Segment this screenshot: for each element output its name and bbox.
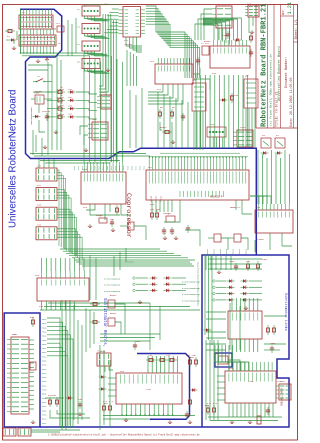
wires right stepper feed [206,255,231,270]
wire comb IC9 bottom [122,404,173,415]
wire comb between JP boxes [20,29,22,35]
wire trunk left bottom [40,309,200,311]
resistor R31 [256,261,259,271]
wires mega bottom pins [152,200,172,212]
wire bundle left stepper top [100,333,160,335]
wire comb below JP2 [20,46,22,53]
svg-text:10k: 10k [150,208,155,211]
wires mid verticals [129,90,131,148]
svg-text:JP1: JP1 [56,22,61,25]
wires IC5 up [42,258,84,271]
svg-text:16MHz: 16MHz [163,212,170,215]
resistor R60 [206,405,209,415]
led LED3 [68,107,76,110]
resistor R11 [55,99,65,102]
resistor R6 [170,109,173,119]
wires IC1 bottom [126,37,142,52]
oscillator Q3 [218,356,228,364]
svg-text:C:\EAGLE\projekte\roboternetz\: C:\EAGLE\projekte\roboternetz\rn-brall.s… [48,434,200,437]
svg-text:Document Number:: Document Number: [284,56,288,88]
ic IC9 L297 left [116,373,182,404]
resistor R51 [90,320,100,323]
junction row below JP2 [20,52,55,54]
wire t3 link [115,304,125,334]
wire trunk C [61,300,63,430]
wire band C [40,160,120,162]
wires right mid [254,240,256,252]
svg-text:IC3: IC3 [83,168,88,171]
wire trunk G [229,303,231,350]
gnd sym G [171,140,175,143]
wires SV6 top stubs [39,159,54,168]
wire pack above coprocessor [84,53,123,162]
wire rows above opto [208,259,262,269]
resistor R62 [266,325,269,335]
diode D3 [220,98,228,101]
wire mega bottom link [164,200,180,222]
svg-text:MA2L: MA2L [238,248,241,254]
wire pack mid-right vertical [185,32,200,78]
crystal Q2 [99,218,107,223]
wire pack top-center b [111,20,116,162]
svg-text:IC10: IC10 [228,367,234,370]
svg-text:0.5: 0.5 [213,402,218,405]
wire band thread [149,156,248,158]
wire rail top headers [85,5,121,6]
svg-text:Date: 28.12.2004 11:05:06: Date: 28.12.2004 11:05:06 [289,78,293,127]
connector LCD SV10 [7,337,29,414]
terminal rows left [133,276,186,292]
svg-text:78L05: 78L05 [35,90,42,93]
gnd sym F [31,420,35,423]
cap C18 [185,411,189,419]
wire trunk F [149,303,151,350]
mega32 mid labels [179,191,181,197]
resistor R10 [55,90,65,93]
ac box AC2 [275,138,285,148]
wire trunk C2 [77,320,79,424]
svg-text:PC1: PC1 [110,165,113,170]
svg-text:SV7: SV7 [37,184,42,187]
wire band B [34,155,150,157]
svg-text:MEGA32-P: MEGA32-P [230,206,241,209]
resistor R12 [55,107,65,110]
ground sym 4 [248,420,252,423]
wire t3 vert pack [85,308,87,352]
gnd sym D [43,145,47,148]
connector X5 [82,59,110,74]
ground sym 10 [138,300,142,303]
svg-text:MA1L: MA1L [42,401,48,404]
svg-text:IC9: IC9 [120,370,125,373]
cap C17 [266,407,270,415]
ground sym 13 [54,130,58,133]
svg-text:LD3: LD3 [68,104,73,107]
wires ISP fan [195,9,212,40]
wire inner loop a [33,91,52,93]
svg-text:IC5: IC5 [35,274,40,277]
ic IC3 coprocessor [81,162,126,204]
cap C10 [181,113,185,121]
wire rows above IC10 [206,332,226,350]
wire row IC9 bottom b [103,418,150,420]
resistor R15 [115,205,118,215]
svg-text:MA1L: MA1L [42,318,48,321]
wires LCD right [29,340,34,409]
svg-text:MA3L: MA3L [42,360,48,363]
svg-text:L297: L297 [146,388,152,391]
wires IC4-IC6 link [193,68,200,74]
bus box left stepper [137,354,190,420]
led LED2 [68,99,76,102]
connector SV8 [36,207,57,220]
wire stub left [6,39,9,41]
resistor R70 [48,397,51,407]
wires above IC8 [250,196,271,204]
cap C13 [249,49,253,57]
resistor row above IC9 a [146,358,156,361]
svg-text:MA1L: MA1L [42,418,48,421]
bus box LCD [4,313,40,427]
svg-text:MA1L: MA1L [42,351,48,354]
wire pack R1 left [205,255,212,345]
crystal Q1 [166,216,175,222]
svg-text:BC547: BC547 [160,126,167,129]
wire inner loop c [51,65,53,150]
title block outline [256,5,298,129]
wires IC1 right elbow [146,6,200,47]
svg-text:SV13: SV13 [240,126,246,129]
ic IC10 L298 right [225,362,276,403]
wire bundle from comb [21,52,96,54]
svg-text:1.21: 1.21 [287,2,293,14]
wire comb IC9 top [148,356,177,373]
connector SV13 [233,130,253,147]
svg-text:MA3L: MA3L [219,248,222,254]
connector SV2 ISP [212,6,232,28]
svg-text:PA4: PA4 [89,165,92,170]
svg-text:5-GLK7B9OABL0: 5-GLK7B9OABL0 [104,284,121,287]
ground sym 6 [174,236,178,239]
resistor R8 [230,93,233,103]
junction row IC9 bottom [121,414,173,415]
svg-text:MA1L: MA1L [42,335,48,338]
wires SV3 down [210,137,223,148]
svg-text:MEGA32-P: MEGA32-P [210,196,223,199]
svg-text:L298: L298 [248,380,254,383]
svg-text:10k: 10k [52,394,57,397]
connector SV6 [36,168,57,181]
svg-text:PC1: PC1 [77,165,80,170]
svg-text:PA6: PA6 [130,165,133,170]
ground sym 2 [188,420,192,423]
wires IC1 left fan [104,9,118,33]
cap C15 [133,342,137,350]
svg-text:SV3: SV3 [210,123,215,126]
wire led row 1 [47,91,55,93]
ground sym 8 [217,270,221,273]
cap C8 [110,219,114,227]
wire copro links [86,204,95,210]
ic IC2 mega32 [146,157,249,200]
wire r5 link [160,122,162,130]
svg-text:LCD1: LCD1 [12,333,18,336]
wire t2 [120,225,128,227]
ic IC5 uln2803 [37,271,89,301]
ground sym 3 [230,420,234,423]
svg-text:4MHz: 4MHz [96,214,102,217]
wires under K2 [246,108,255,148]
svg-text:Sheet: 1/1: Sheet: 1/1 [294,19,299,39]
svg-text:(c) Frank Brall, OO@u www.rob: (c) Frank Brall, OO@u www.roboternetz.de [269,54,273,126]
connector SV12 [276,384,291,400]
diode D1 [9,38,17,41]
svg-text:100n: 100n [135,340,141,343]
gnd sym E [88,224,92,227]
resistor R5 [158,109,161,119]
svg-text:L293D: L293D [257,238,264,241]
resistor R54 [188,357,191,367]
connector SV4 [245,5,259,17]
wire trunk H [99,345,101,430]
wire comb IC10 bottom [229,403,273,417]
svg-text:JP2: JP2 [58,42,63,45]
diode D9 [261,151,269,154]
wire pack under IC4 [158,92,188,148]
svg-text:MA1L: MA1L [42,368,48,371]
diode D5 [99,375,107,378]
led LED4 [68,115,76,118]
svg-text:PC5: PC5 [126,165,129,170]
svg-text:BC547: BC547 [110,294,117,297]
svg-text:100n: 100n [262,258,268,261]
svg-text:R20: R20 [150,203,155,206]
wire rows R1 mid [206,311,226,313]
resistor R13 [55,115,65,118]
svg-text:PB1L: PB1L [42,405,48,408]
bus top-left loop [20,9,256,255]
svg-text:SV1: SV1 [104,3,109,6]
svg-text:Universelles Roboter Board: Universelles Roboter Board [277,46,282,101]
relay K2 [244,79,258,108]
resistor row above IC9 b [157,358,167,361]
svg-text:74HC00: 74HC00 [124,43,133,46]
bus bottom rail [40,426,202,428]
svg-text:PB1L: PB1L [42,330,48,333]
cap C3 [45,113,49,121]
svg-text:PC7: PC7 [102,165,105,170]
resistor R30 [246,261,249,271]
diode D11 [66,396,74,399]
transistor T3 [108,300,115,308]
wire bundle mid fanning right [60,249,195,260]
svg-text:22k: 22k [148,354,153,357]
connector X2 [82,6,110,21]
ic IC4 [155,58,193,84]
ground sym 1 [168,420,172,423]
wire bundle LCD right [47,318,73,428]
svg-text:IC4: IC4 [157,88,162,91]
svg-text:1N4148: 1N4148 [230,94,239,97]
svg-text:BC547: BC547 [110,312,117,315]
wires H9 left [80,126,88,135]
svg-text:22p: 22p [162,232,167,235]
wires IC6 fan up [203,18,241,40]
junction row under bus [149,156,247,158]
svg-text:BC557: BC557 [204,40,211,43]
connector X3 [82,24,110,39]
wire pack top-center [99,14,111,95]
ic IC8 L293 [255,204,293,233]
resistor R21 [155,210,158,220]
wires IC5 down [42,301,75,310]
wire trunk E [89,255,91,300]
svg-text:PB1L: PB1L [42,380,48,383]
svg-text:Universelles RoboterNetz Board: Universelles RoboterNetz Board [8,90,19,228]
resistor R71 [55,397,58,407]
wire led row 3 [47,108,55,110]
wire row IC9 bottom a [103,415,195,417]
ground sym 7 [111,228,115,231]
wire comb IC10 top [215,345,249,371]
wire inner loop e [32,130,34,155]
svg-text:MA3L: MA3L [42,376,48,379]
ground sym 12 [106,68,110,71]
cap C5 [162,227,166,235]
resistor R1 [5,29,15,32]
resistor R63 [272,325,275,335]
svg-text:LD4: LD4 [68,113,73,116]
svg-text:IC5: IC5 [39,305,44,308]
gnd sym H [78,412,82,415]
wires SV2 down [219,28,230,45]
wire pack R1 inner [206,340,218,420]
ground sym 11 [84,148,88,151]
cap C2 [196,57,200,65]
wire comb IC12 bottom [232,339,258,352]
diode D8 [204,328,212,331]
svg-text:Schrittmotor Links: Schrittmotor Links [283,293,288,331]
led LED1 [68,90,76,93]
bus small box oscillator [215,353,232,367]
wire left drop [13,40,15,44]
svg-text:PB3L: PB3L [42,364,48,367]
diode D10 [275,151,283,154]
wire inner loop d [38,104,40,113]
trimmer R41 [30,362,36,370]
resistor R53 [108,403,111,413]
connector X4 [82,41,110,56]
cap C12 [226,31,230,39]
cap C9 [234,263,238,271]
ic IC6 [210,40,250,68]
wire bundle mid2 [76,262,194,266]
svg-text:RoboterNetz Board RBN-FBR1.21: RoboterNetz Board RBN-FBR1.21 [261,4,269,127]
svg-text:MA1L: MA1L [206,248,209,254]
connector SV11 [97,353,111,366]
svg-text:PA2: PA2 [114,165,117,170]
svg-text:LD1: LD1 [68,88,73,91]
resistor R55 [194,357,197,367]
svg-text:100n: 100n [270,342,276,345]
ground sym 0 [124,418,128,421]
svg-text:SV11: SV11 [100,350,106,353]
svg-text:5-GLK7B9OABL0: 5-GLK7B9OABL0 [104,278,121,281]
svg-text:PA0: PA0 [106,165,109,170]
resistor R61 [212,405,215,415]
svg-text:REV:: REV: [282,9,285,15]
svg-text:IC8: IC8 [256,206,261,209]
wire comb IC12 top [232,298,258,311]
svg-text:MA3L: MA3L [42,343,48,346]
red hatch JP1 [20,17,52,19]
svg-text:PA4: PA4 [122,165,125,170]
svg-text:PB3L: PB3L [42,339,48,342]
svg-text:SV9: SV9 [37,223,42,226]
svg-text:SV4: SV4 [247,3,252,6]
ac box AC1 [261,138,271,148]
resistor R20 [150,210,153,220]
svg-text:MA3L: MA3L [42,326,48,329]
svg-text:PC7: PC7 [135,165,138,170]
svg-text:MA1L: MA1L [232,248,235,254]
wire bottom cluster [45,397,64,399]
connector H9 [88,122,108,140]
connector SV9 [36,227,57,240]
component JP3 [53,26,64,32]
svg-text:22p: 22p [170,232,175,235]
resistor R56 [188,397,191,407]
wire trunk A2 [67,20,69,56]
svg-text:10k: 10k [246,260,251,263]
wire row IC10 bottom [208,416,282,418]
svg-text:100n: 100n [229,260,235,263]
opto rows right [213,279,262,301]
resistor row above IC9 c [167,358,177,361]
svg-text:PB3L: PB3L [42,413,48,416]
svg-text:Coprozessor: Coprozessor [124,193,132,238]
svg-text:PA6: PA6 [98,165,101,170]
wires below IC1 pack [127,50,137,86]
svg-text:PB2L: PB2L [42,322,48,325]
svg-text:MA4L: MA4L [225,248,228,254]
wires under K1 [194,111,203,150]
svg-text:IC4: IC4 [150,60,155,63]
connector JP2 [19,35,56,46]
resistor R9 [249,33,252,43]
svg-text:MA2L: MA2L [212,248,215,254]
wires SV6 fan [57,170,66,249]
wire mega right bottom [235,200,237,210]
wires bottom left [31,431,60,433]
svg-text:PB2L: PB2L [42,372,48,375]
transistor T6 [228,234,248,250]
svg-text:MA3L: MA3L [42,409,48,412]
connector H8 [97,95,111,109]
wires SV7 fan [57,190,71,253]
oscillator Q3 wire [228,360,240,371]
svg-text:MA1L: MA1L [42,384,48,387]
wire sv4 down [248,17,250,33]
gnd sym C [250,30,254,33]
wire copro bottom [90,204,120,215]
wire led row 2 [47,99,55,101]
wires right column pack [258,150,290,204]
resistor R50 [90,302,100,305]
wire inner loop b [47,62,49,155]
wire led row 4 [47,116,55,118]
svg-text:PA0: PA0 [73,165,76,170]
